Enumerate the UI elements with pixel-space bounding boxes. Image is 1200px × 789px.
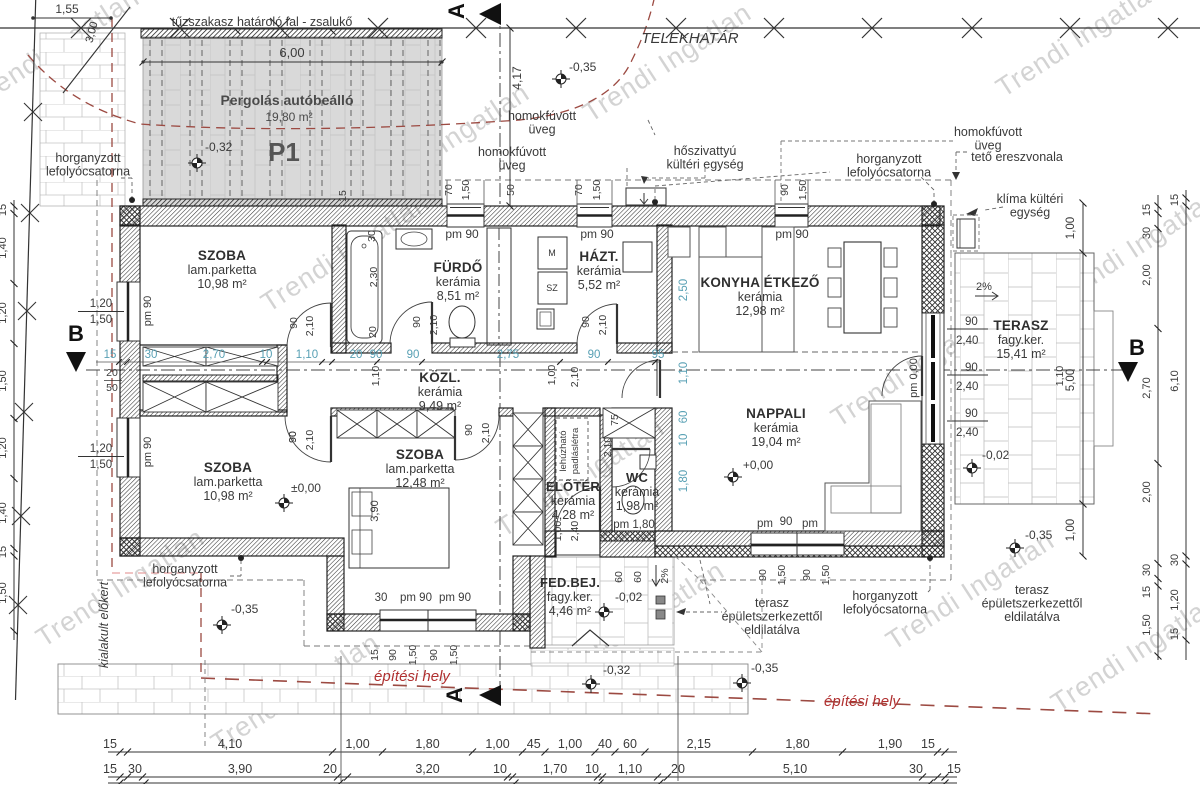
svg-text:horganyzott: horganyzott	[852, 589, 918, 603]
svg-text:20: 20	[323, 762, 337, 776]
svg-text:15: 15	[921, 737, 935, 751]
svg-text:+0,00: +0,00	[743, 458, 774, 472]
svg-text:homokfúvott: homokfúvott	[478, 145, 547, 159]
svg-text:10: 10	[585, 762, 599, 776]
svg-text:pm 90: pm 90	[439, 592, 471, 604]
svg-text:1,10: 1,10	[370, 366, 382, 387]
svg-text:1,00: 1,00	[552, 521, 564, 542]
svg-text:9,49 m²: 9,49 m²	[419, 399, 461, 413]
svg-text:1,00: 1,00	[558, 737, 582, 751]
svg-text:15,41 m²: 15,41 m²	[996, 347, 1045, 361]
svg-text:1,50: 1,50	[1141, 614, 1153, 635]
svg-text:kerámia: kerámia	[577, 264, 622, 278]
svg-text:90: 90	[287, 431, 299, 443]
svg-text:B: B	[68, 321, 84, 346]
svg-text:A: A	[444, 3, 469, 19]
svg-text:90: 90	[411, 316, 423, 328]
svg-text:2,10: 2,10	[304, 430, 316, 451]
svg-text:2,00: 2,00	[1141, 481, 1153, 502]
svg-text:10,98 m²: 10,98 m²	[197, 277, 246, 291]
svg-text:45: 45	[527, 737, 541, 751]
svg-text:15: 15	[103, 737, 117, 751]
svg-text:pm 90: pm 90	[445, 227, 479, 241]
svg-text:4,10: 4,10	[218, 737, 242, 751]
svg-text:lefolyócsatorna: lefolyócsatorna	[143, 576, 227, 590]
svg-text:1,10: 1,10	[296, 349, 318, 361]
svg-text:1,00: 1,00	[546, 365, 558, 386]
svg-text:90: 90	[801, 569, 813, 581]
svg-text:eldilatálva: eldilatálva	[1004, 610, 1060, 624]
svg-text:-0,35: -0,35	[569, 60, 597, 74]
svg-text:fagy.ker.: fagy.ker.	[547, 590, 593, 604]
svg-text:30: 30	[375, 592, 388, 604]
svg-text:1,80: 1,80	[415, 737, 439, 751]
svg-text:15: 15	[103, 762, 117, 776]
svg-text:1,20: 1,20	[90, 443, 112, 455]
svg-text:2,15: 2,15	[687, 737, 711, 751]
svg-text:10: 10	[260, 349, 273, 361]
svg-text:pm 90: pm 90	[775, 227, 809, 241]
svg-text:4,46 m²: 4,46 m²	[549, 604, 591, 618]
svg-text:terasz: terasz	[755, 596, 789, 610]
svg-text:15: 15	[0, 546, 9, 558]
svg-text:B: B	[1129, 335, 1145, 360]
svg-text:2,70: 2,70	[1141, 377, 1153, 398]
svg-text:2,10: 2,10	[602, 437, 614, 458]
svg-text:1,50: 1,50	[0, 582, 9, 603]
svg-text:19,80 m²: 19,80 m²	[265, 110, 312, 124]
svg-text:Pergolás autóbeálló: Pergolás autóbeálló	[220, 92, 353, 108]
svg-text:eldilatálva: eldilatálva	[744, 623, 800, 637]
svg-text:A: A	[442, 687, 467, 703]
svg-text:pm 90: pm 90	[400, 592, 432, 604]
svg-text:egység: egység	[1010, 206, 1050, 220]
svg-text:kialakult előkert: kialakult előkert	[97, 581, 111, 668]
svg-text:épületszerkezettől: épületszerkezettől	[982, 597, 1083, 611]
svg-text:padláslétra: padláslétra	[570, 427, 581, 474]
svg-text:kerámia: kerámia	[418, 385, 463, 399]
svg-text:pm: pm	[802, 518, 818, 530]
svg-text:±0,00: ±0,00	[291, 481, 321, 495]
svg-text:-0,35: -0,35	[231, 602, 259, 616]
svg-text:30: 30	[366, 230, 378, 242]
svg-text:pm 90: pm 90	[580, 227, 614, 241]
svg-text:lam.parketta: lam.parketta	[386, 462, 455, 476]
svg-text:90: 90	[370, 349, 383, 361]
svg-text:5,52 m²: 5,52 m²	[578, 278, 620, 292]
svg-text:10,98 m²: 10,98 m²	[203, 489, 252, 503]
svg-text:-0,02: -0,02	[982, 448, 1010, 462]
svg-text:1,50: 1,50	[90, 459, 112, 471]
svg-text:kerámia: kerámia	[615, 485, 660, 499]
svg-text:pm 0,00: pm 0,00	[908, 358, 920, 398]
svg-text:15: 15	[1141, 586, 1153, 598]
svg-text:15: 15	[104, 349, 117, 361]
svg-text:50: 50	[106, 382, 118, 394]
svg-text:2,40: 2,40	[956, 427, 978, 439]
svg-text:15: 15	[1141, 204, 1153, 216]
svg-text:6,10: 6,10	[1169, 370, 1181, 391]
svg-text:15: 15	[1169, 194, 1181, 206]
svg-text:ELŐTÉR: ELŐTÉR	[546, 479, 600, 494]
svg-text:építési hely: építési hely	[374, 668, 451, 685]
svg-text:1,10: 1,10	[678, 362, 690, 384]
svg-text:-0,02: -0,02	[615, 590, 643, 604]
svg-text:pm 90: pm 90	[142, 296, 154, 327]
svg-text:10: 10	[678, 434, 690, 447]
svg-text:1,50: 1,50	[0, 370, 9, 391]
svg-text:kerámia: kerámia	[436, 275, 481, 289]
svg-text:90: 90	[428, 649, 440, 661]
svg-text:12,98 m²: 12,98 m²	[735, 304, 784, 318]
svg-text:95: 95	[652, 349, 665, 361]
svg-text:kerámia: kerámia	[551, 494, 596, 508]
svg-text:2,10: 2,10	[428, 315, 440, 336]
svg-text:20: 20	[106, 367, 118, 379]
svg-text:50: 50	[505, 184, 517, 196]
svg-text:2,40: 2,40	[569, 521, 581, 542]
svg-text:2,10: 2,10	[304, 316, 316, 337]
svg-text:2,10: 2,10	[597, 315, 609, 336]
svg-text:30: 30	[1169, 554, 1181, 566]
svg-text:30: 30	[145, 349, 158, 361]
svg-text:kerámia: kerámia	[738, 290, 783, 304]
svg-text:-0,35: -0,35	[1025, 528, 1053, 542]
svg-text:horganyzott: horganyzott	[55, 151, 121, 165]
svg-text:1,10: 1,10	[618, 762, 642, 776]
svg-text:2,00: 2,00	[1141, 264, 1153, 285]
svg-text:FÜRDŐ: FÜRDŐ	[434, 260, 483, 275]
svg-text:1,40: 1,40	[0, 237, 9, 258]
svg-text:30: 30	[1141, 564, 1153, 576]
svg-text:lam.parketta: lam.parketta	[194, 475, 263, 489]
svg-text:2,50: 2,50	[678, 279, 690, 301]
svg-text:60: 60	[623, 737, 637, 751]
svg-text:2,75: 2,75	[497, 349, 519, 361]
svg-text:TELEKHATÁR: TELEKHATÁR	[641, 30, 738, 47]
svg-text:hőszivattyú: hőszivattyú	[674, 144, 737, 158]
svg-text:3,90: 3,90	[369, 500, 381, 521]
svg-text:60: 60	[678, 411, 690, 424]
svg-text:3,90: 3,90	[228, 762, 252, 776]
svg-text:homokfúvott: homokfúvott	[954, 125, 1023, 139]
svg-text:15: 15	[0, 204, 9, 216]
svg-text:2,30: 2,30	[368, 267, 380, 288]
svg-text:1,00: 1,00	[1065, 519, 1077, 541]
svg-text:5,10: 5,10	[783, 762, 807, 776]
svg-text:90: 90	[588, 349, 601, 361]
svg-text:1,50: 1,50	[776, 565, 788, 586]
svg-text:KÖZL.: KÖZL.	[419, 370, 461, 385]
svg-text:1,20: 1,20	[1169, 589, 1181, 610]
svg-text:lefolyócsatorna: lefolyócsatorna	[847, 166, 931, 180]
svg-text:horganyzott: horganyzott	[152, 562, 218, 576]
svg-text:1,90: 1,90	[878, 737, 902, 751]
svg-text:70: 70	[573, 184, 585, 196]
svg-text:60: 60	[632, 571, 644, 583]
svg-text:1,00: 1,00	[485, 737, 509, 751]
svg-text:1,80: 1,80	[678, 470, 690, 492]
svg-text:SZ: SZ	[546, 283, 558, 293]
svg-text:90: 90	[780, 516, 793, 528]
svg-text:1,50: 1,50	[591, 180, 603, 201]
svg-text:90: 90	[387, 649, 399, 661]
svg-text:P1: P1	[268, 137, 300, 167]
svg-text:SZOBA: SZOBA	[198, 248, 246, 263]
svg-text:tűzszakasz határoló fal - zsal: tűzszakasz határoló fal - zsalukő	[172, 15, 353, 29]
svg-text:40: 40	[598, 737, 612, 751]
svg-text:15: 15	[369, 649, 381, 661]
svg-text:1,20: 1,20	[90, 298, 112, 310]
svg-text:WC: WC	[626, 470, 648, 485]
svg-text:75: 75	[609, 414, 621, 426]
svg-text:horganyzott: horganyzott	[856, 152, 922, 166]
svg-text:SZOBA: SZOBA	[204, 460, 252, 475]
svg-text:10: 10	[493, 762, 507, 776]
svg-text:M: M	[548, 248, 556, 258]
svg-text:-0,32: -0,32	[603, 663, 631, 677]
svg-text:90: 90	[965, 316, 978, 328]
svg-text:1,55: 1,55	[55, 2, 79, 16]
svg-text:FED.BEJ.: FED.BEJ.	[540, 575, 600, 590]
svg-text:30: 30	[128, 762, 142, 776]
svg-text:2,10: 2,10	[569, 367, 581, 388]
svg-text:lefolyócsatorna: lefolyócsatorna	[843, 603, 927, 617]
svg-text:lehúzható: lehúzható	[558, 430, 569, 471]
svg-text:klíma kültéri: klíma kültéri	[997, 192, 1064, 206]
svg-text:pm 1,80: pm 1,80	[613, 519, 655, 531]
svg-text:1,80: 1,80	[785, 737, 809, 751]
svg-text:15: 15	[337, 190, 349, 202]
svg-text:1,40: 1,40	[0, 502, 9, 523]
svg-text:90: 90	[463, 424, 475, 436]
svg-text:90: 90	[580, 316, 592, 328]
svg-text:1,10: 1,10	[1054, 366, 1066, 387]
svg-text:üveg: üveg	[528, 123, 555, 137]
svg-text:70: 70	[443, 184, 455, 196]
svg-text:1,50: 1,50	[90, 314, 112, 326]
svg-text:19,04 m²: 19,04 m²	[751, 435, 800, 449]
svg-text:4,17: 4,17	[510, 66, 524, 90]
svg-text:pm: pm	[757, 518, 773, 530]
svg-text:8,51 m²: 8,51 m²	[437, 289, 479, 303]
svg-text:30: 30	[1141, 227, 1153, 239]
svg-text:3,20: 3,20	[415, 762, 439, 776]
svg-text:1,50: 1,50	[820, 565, 832, 586]
svg-text:5,00: 5,00	[1065, 369, 1077, 391]
svg-text:90: 90	[288, 317, 300, 329]
svg-text:lefolyócsatorna: lefolyócsatorna	[46, 165, 130, 179]
svg-text:1,20: 1,20	[0, 302, 9, 323]
svg-text:TERASZ: TERASZ	[993, 318, 1048, 333]
svg-text:15: 15	[1169, 628, 1181, 640]
svg-text:2,40: 2,40	[956, 335, 978, 347]
svg-text:lam.parketta: lam.parketta	[188, 263, 257, 277]
svg-text:2%: 2%	[659, 568, 671, 583]
svg-text:2%: 2%	[976, 281, 992, 293]
svg-text:15: 15	[947, 762, 961, 776]
svg-text:1,70: 1,70	[543, 762, 567, 776]
svg-text:KONYHA ÉTKEZŐ: KONYHA ÉTKEZŐ	[700, 275, 819, 290]
svg-text:2,70: 2,70	[203, 349, 225, 361]
svg-text:kerámia: kerámia	[754, 421, 799, 435]
svg-text:pm 90: pm 90	[142, 437, 154, 468]
svg-text:12,48 m²: 12,48 m²	[395, 476, 444, 490]
svg-text:1,50: 1,50	[797, 180, 809, 201]
svg-text:homokfúvott: homokfúvott	[508, 109, 577, 123]
svg-text:1,50: 1,50	[460, 180, 472, 201]
svg-text:2,10: 2,10	[480, 423, 492, 444]
svg-text:30: 30	[909, 762, 923, 776]
svg-text:HÁZT.: HÁZT.	[579, 249, 618, 264]
svg-text:SZOBA: SZOBA	[396, 447, 444, 462]
svg-text:20: 20	[350, 349, 363, 361]
svg-text:1,98 m²: 1,98 m²	[616, 499, 658, 513]
svg-text:1,50: 1,50	[448, 645, 460, 666]
svg-text:2,40: 2,40	[956, 381, 978, 393]
svg-text:-0,32: -0,32	[205, 140, 233, 154]
svg-text:NAPPALI: NAPPALI	[746, 406, 806, 421]
svg-text:tető ereszvonala: tető ereszvonala	[971, 150, 1063, 164]
svg-text:4,28 m²: 4,28 m²	[552, 508, 594, 522]
svg-text:épületszerkezettől: épületszerkezettől	[722, 610, 823, 624]
svg-text:üveg: üveg	[498, 159, 525, 173]
svg-text:1,50: 1,50	[407, 645, 419, 666]
svg-text:90: 90	[965, 362, 978, 374]
svg-text:fagy.ker.: fagy.ker.	[998, 333, 1044, 347]
svg-text:90: 90	[407, 349, 420, 361]
svg-text:építési hely: építési hely	[824, 693, 901, 710]
svg-text:1,00: 1,00	[1065, 217, 1077, 239]
svg-text:1,20: 1,20	[0, 437, 9, 458]
svg-text:6,00: 6,00	[279, 45, 304, 60]
svg-text:20: 20	[367, 326, 379, 338]
svg-text:terasz: terasz	[1015, 583, 1049, 597]
svg-text:-0,35: -0,35	[751, 661, 779, 675]
svg-text:90: 90	[965, 408, 978, 420]
svg-text:60: 60	[613, 571, 625, 583]
svg-text:90: 90	[757, 569, 769, 581]
svg-text:1,00: 1,00	[345, 737, 369, 751]
